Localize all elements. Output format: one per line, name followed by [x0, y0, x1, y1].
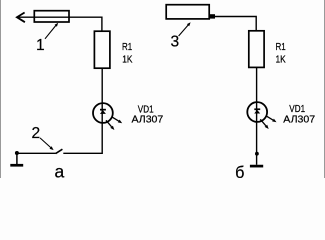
junction dot (left ground node)	[15, 151, 19, 155]
LED VD1 (right): circle	[247, 102, 267, 123]
junction dot (right ground node)	[255, 152, 259, 156]
leader line to label 2	[40, 138, 54, 150]
ground (right)	[250, 165, 263, 168]
radiation arrow (left-pointing, through device 1)	[17, 13, 70, 23]
resistor R1 (left)	[94, 31, 110, 68]
wire from device 1 to top-left corner node	[69, 17, 102, 31]
leader line to label 3	[179, 22, 191, 36]
resistor R1 (right)	[249, 31, 264, 68]
wire LED to bottom corner (left)	[63, 124, 102, 154]
LED light arrows (left)	[106, 117, 122, 130]
svg-text:АЛ307: АЛ307	[132, 114, 164, 126]
value label R1 1K (right)	[276, 41, 286, 66]
svg-text:R1: R1	[276, 41, 286, 53]
leader line to label 1	[45, 23, 58, 39]
wire device 3 to resistor (right)	[215, 17, 256, 31]
svg-text:3: 3	[170, 34, 179, 51]
svg-text:1K: 1K	[276, 54, 286, 66]
output terminal nub of device 3	[210, 14, 215, 18]
svg-text:2: 2	[31, 125, 40, 142]
label VD1 АЛ307 (right)	[283, 103, 315, 126]
svg-text:R1: R1	[122, 41, 132, 53]
svg-text:1: 1	[36, 37, 45, 54]
wire resistor to LED (left)	[101, 68, 103, 103]
switch 2 lever	[56, 149, 63, 153]
label VD1 АЛ307 (left)	[132, 103, 164, 125]
svg-text:б: б	[235, 164, 244, 178]
value label R1 1K (left)	[122, 41, 132, 66]
ground (left)	[10, 153, 23, 165]
wire resistor to LED (right)	[256, 67, 258, 102]
LED light arrows (right)	[260, 116, 276, 129]
svg-text:1K: 1K	[122, 54, 132, 66]
wire LED to ground (right)	[256, 123, 258, 165]
svg-text:АЛ307: АЛ307	[283, 113, 315, 125]
svg-text:а: а	[55, 162, 65, 179]
wire switch to ground (left)	[17, 152, 56, 154]
emitter device 1 (box)	[34, 11, 69, 22]
LED VD1 (left): circle	[93, 103, 113, 124]
receiver device 3 (box)	[166, 5, 209, 19]
